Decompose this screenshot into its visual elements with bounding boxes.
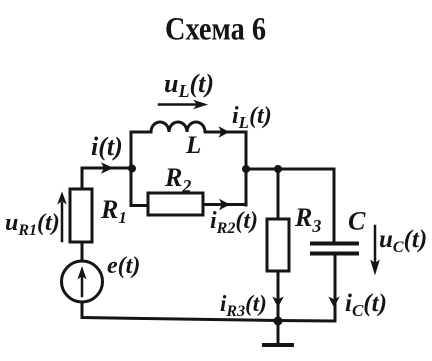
svg-text:C: C xyxy=(348,207,366,236)
svg-text:L: L xyxy=(185,132,201,159)
svg-text:Схема 6: Схема 6 xyxy=(165,12,266,48)
svg-text:iR3(t): iR3(t) xyxy=(220,291,267,320)
svg-text:iL(t): iL(t) xyxy=(232,103,272,132)
svg-text:uR1(t): uR1(t) xyxy=(5,210,60,239)
svg-text:e(t): e(t) xyxy=(107,253,140,279)
svg-text:uL(t): uL(t) xyxy=(164,69,214,101)
svg-text:R3: R3 xyxy=(294,203,321,236)
svg-text:iR2(t): iR2(t) xyxy=(210,208,258,237)
svg-text:R2: R2 xyxy=(164,163,191,196)
svg-text:uC(t): uC(t) xyxy=(379,226,427,256)
svg-text:i(t): i(t) xyxy=(91,132,123,161)
svg-text:R1: R1 xyxy=(100,195,127,227)
svg-text:iC(t): iC(t) xyxy=(345,290,387,320)
